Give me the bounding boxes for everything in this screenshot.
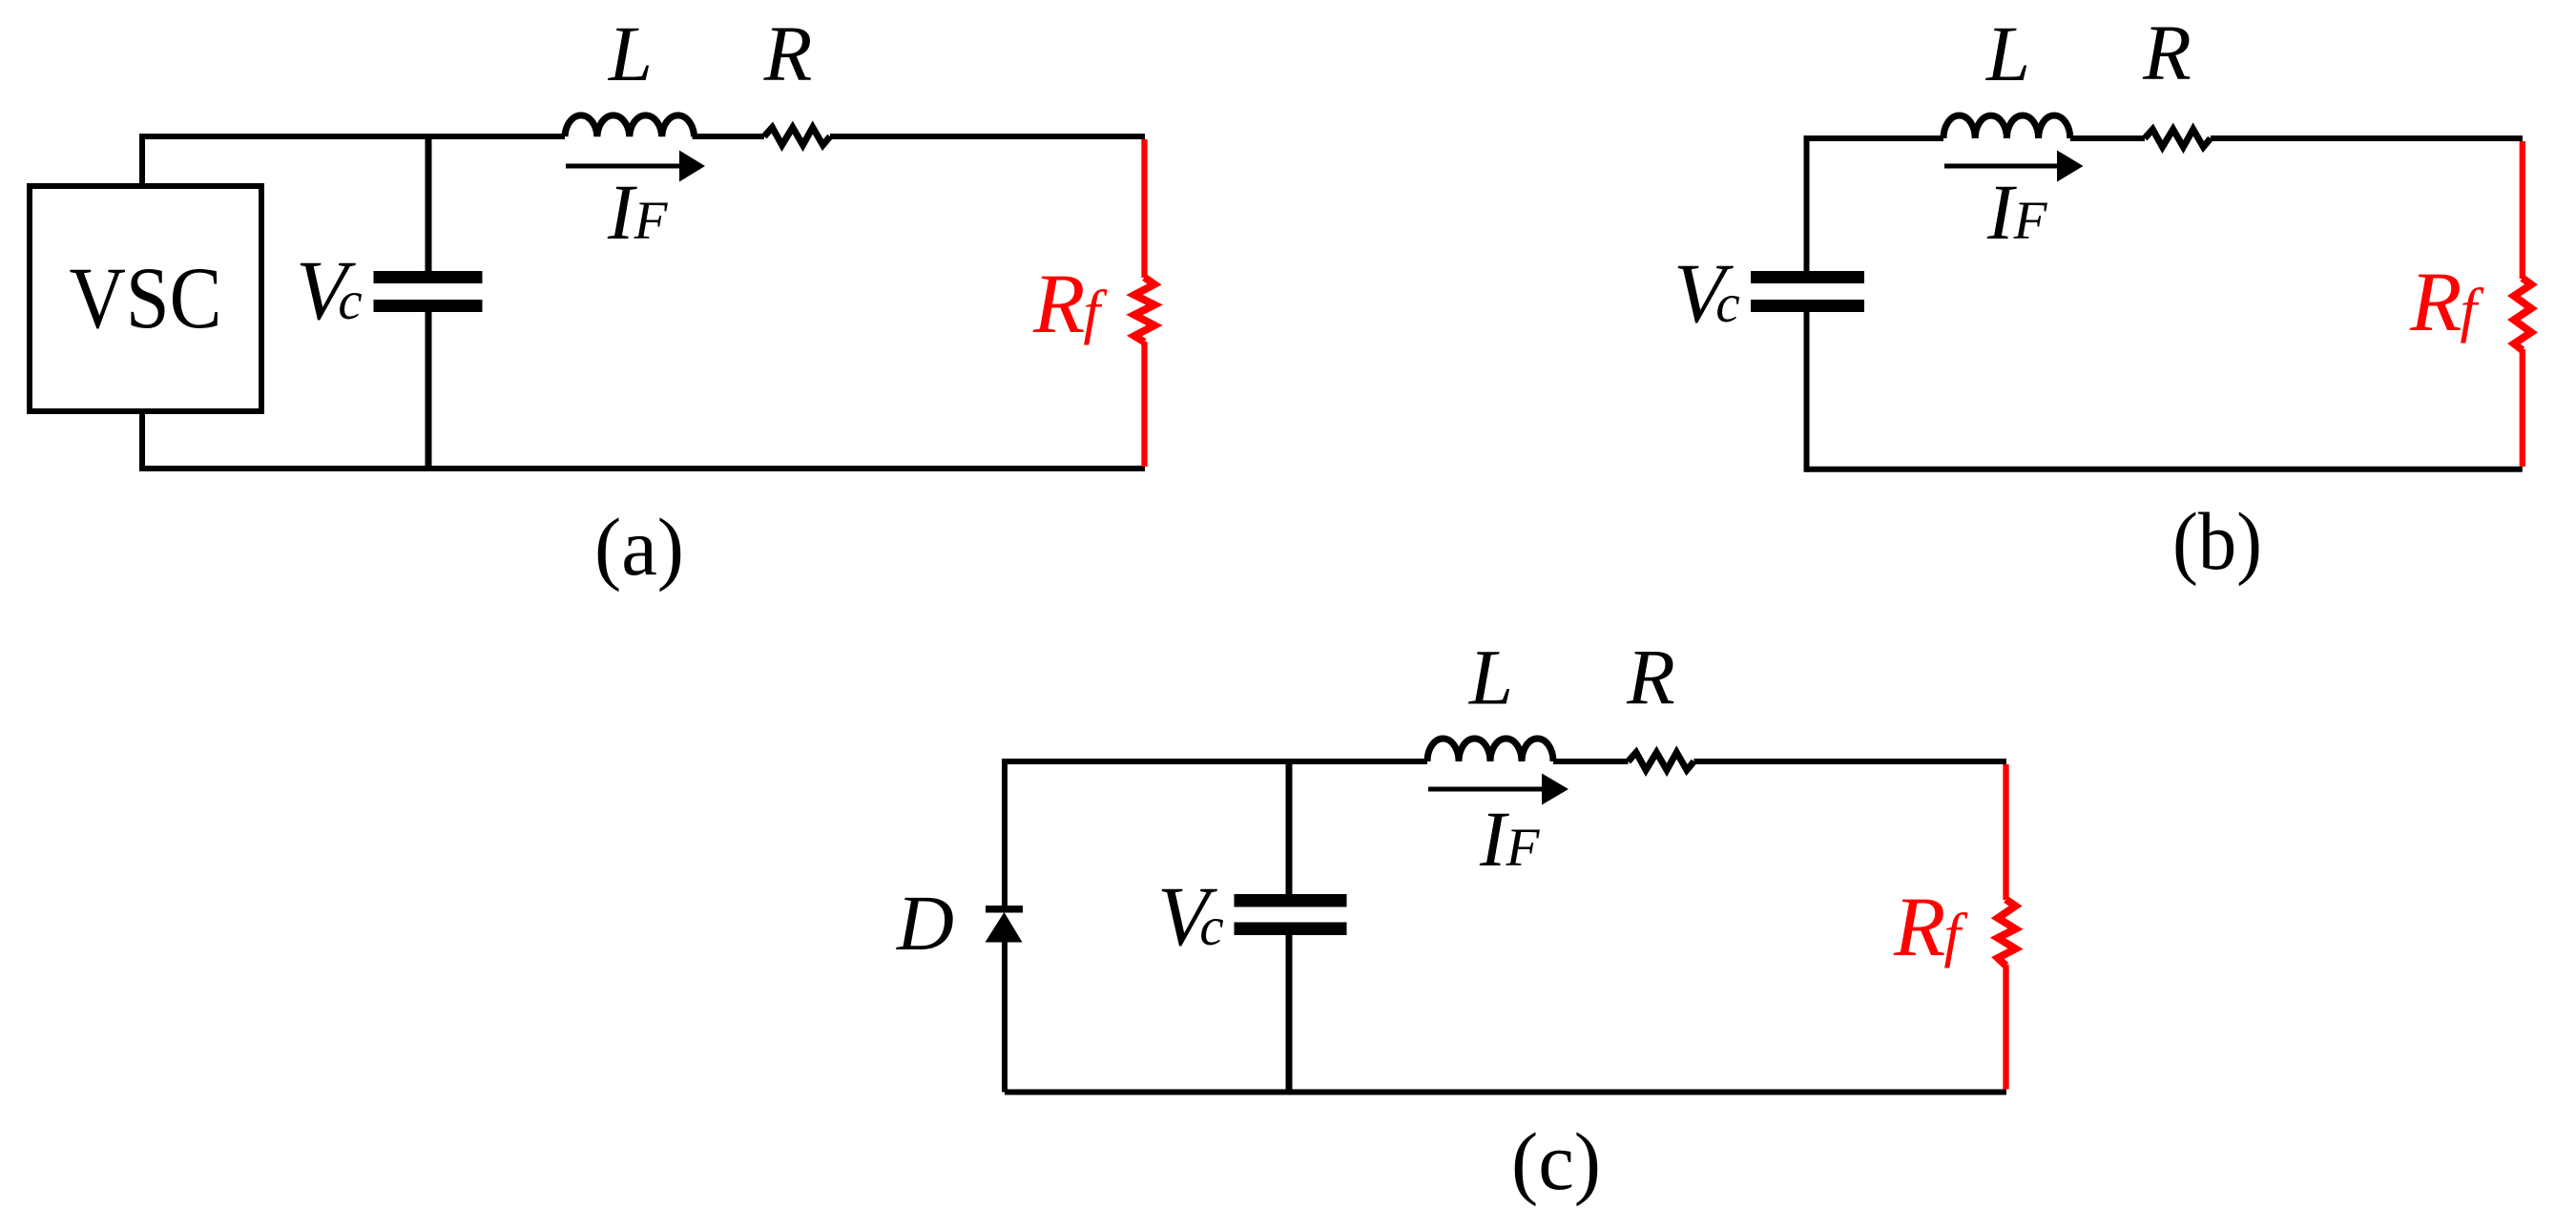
resistor R (b) xyxy=(2145,130,2211,148)
wire: (b) bottom wire xyxy=(1807,467,2523,472)
wire: (b) left vertical upper xyxy=(1804,135,1810,271)
arrow IF (b) head xyxy=(2057,151,2084,182)
wire: (c) bottom wire xyxy=(1005,1090,2006,1095)
capacitor Vc (a) bottom plate xyxy=(374,300,483,312)
svg-text:L: L xyxy=(1985,10,2030,97)
wire: (b) left vertical lower xyxy=(1804,312,1810,472)
resistor R (c) xyxy=(1629,753,1694,771)
wire: (c) capacitor branch lower xyxy=(1286,935,1293,1093)
capacitor Vc (b) bottom plate xyxy=(1751,300,1864,312)
wire: (c) capacitor branch upper xyxy=(1286,759,1293,894)
svg-text:R: R xyxy=(1626,634,1675,721)
svg-text:D: D xyxy=(896,879,954,967)
capacitor Vc (b) top plate xyxy=(1751,271,1864,283)
wire: (c) right vertical red lower xyxy=(2003,965,2008,1090)
VSC box xyxy=(30,186,261,411)
wire: (c) left vertical lower (diode branch) xyxy=(1002,939,1008,1093)
wire: (c) left vertical upper (diode branch) xyxy=(1002,759,1008,907)
wire: (a) capacitor branch upper xyxy=(426,134,432,271)
diode D triangle xyxy=(986,912,1023,943)
svg-text:(c): (c) xyxy=(1511,1115,1601,1207)
wire: (a) capacitor branch lower xyxy=(426,312,432,469)
inductor L (a) xyxy=(565,115,695,136)
resistor Rf (c) zigzag xyxy=(1998,900,2016,966)
capacitor Vc (c) bottom plate xyxy=(1235,923,1347,936)
svg-text:(b): (b) xyxy=(2172,495,2262,587)
wire: (a) left vertical lower stub xyxy=(139,411,145,471)
wire: (a) left vertical upper stub xyxy=(139,134,145,186)
inductor L (b) xyxy=(1943,115,2070,138)
wire: (a) top wire between L and R xyxy=(693,134,764,139)
wire: (b) top wire right segment xyxy=(2211,135,2523,141)
resistor Rf (b) zigzag xyxy=(2514,278,2531,350)
arrow IF (a) head xyxy=(679,151,705,182)
wire: (a) bottom wire xyxy=(142,466,1145,471)
wire: (c) right vertical red upper xyxy=(2003,764,2008,900)
resistor R (a) xyxy=(764,128,830,146)
wire: (c) top wire left segment xyxy=(1005,759,1427,764)
wire: (b) right vertical red upper xyxy=(2520,141,2525,279)
wire: (c) top wire between L and R xyxy=(1553,759,1629,764)
svg-text:VSC: VSC xyxy=(70,249,222,346)
svg-text:R: R xyxy=(2142,9,2192,96)
capacitor Vc (a) top plate xyxy=(374,271,483,283)
node: (b) top-right corner black cap xyxy=(2517,135,2523,141)
svg-text:L: L xyxy=(608,10,653,97)
inductor L (c) xyxy=(1427,739,1553,761)
wire: (b) top wire left segment xyxy=(1807,135,1944,141)
node: (c) top-right corner black cap xyxy=(2001,759,2006,764)
arrow IF (c) head xyxy=(1542,774,1568,805)
wire: (a) right vertical red lower xyxy=(1141,342,1147,467)
svg-text:L: L xyxy=(1468,634,1513,721)
wire: (a) top wire left segment xyxy=(142,134,565,139)
wire: (a) right vertical red upper xyxy=(1141,139,1147,278)
wire: (b) right vertical red lower xyxy=(2520,349,2525,467)
svg-text:R: R xyxy=(763,10,813,97)
wire: (c) top wire right segment xyxy=(1694,759,2007,764)
wire: (a) top wire right segment xyxy=(830,134,1145,139)
arrow IF (a) shaft xyxy=(566,164,681,169)
wire: (b) top wire between L and R xyxy=(2070,135,2145,141)
diode D cathode bar xyxy=(986,906,1023,913)
resistor Rf (a) zigzag xyxy=(1134,278,1154,343)
capacitor Vc (c) top plate xyxy=(1235,894,1347,907)
svg-text:(a): (a) xyxy=(594,501,684,593)
node: (a) top-right corner black cap xyxy=(1139,134,1145,139)
arrow IF (b) shaft xyxy=(1944,164,2059,169)
arrow IF (c) shaft xyxy=(1428,787,1544,792)
